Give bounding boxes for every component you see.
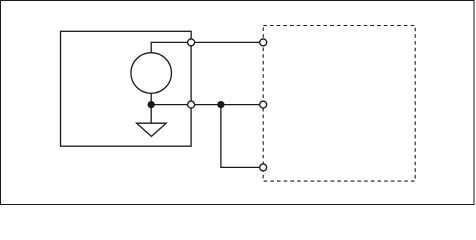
- junction (middle rail tap): [217, 101, 224, 108]
- wire: source bottom to middle rail: [151, 93, 263, 104]
- wire: junction to ground: [150, 105, 152, 124]
- terminal node (source box, lower): [188, 101, 195, 108]
- junction (source bottom node): [148, 101, 155, 108]
- terminal node (load box, middle): [260, 101, 267, 108]
- source network box (solid enclosure): [61, 31, 192, 146]
- source (circle symbol): [131, 53, 172, 94]
- load network box (dashed enclosure): [263, 26, 415, 182]
- terminal node (source box, upper): [188, 39, 195, 46]
- wire: source top to upper terminals: [151, 42, 263, 52]
- terminal node (load box, top): [260, 39, 267, 46]
- ground: [137, 123, 167, 136]
- wire: middle rail junction down to bottom terminal: [221, 105, 263, 168]
- terminal node (load box, bottom): [260, 164, 267, 171]
